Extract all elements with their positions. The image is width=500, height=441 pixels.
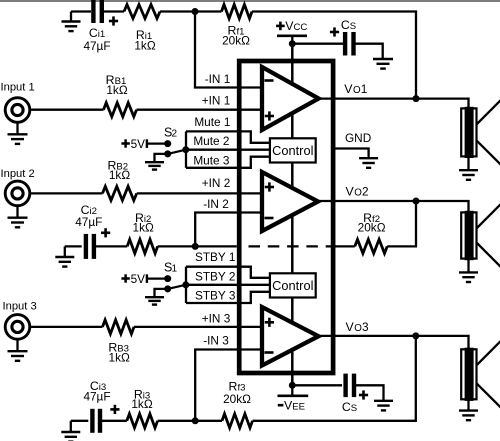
wire ground stub Ci3	[70, 421, 72, 432]
plus polarity Ci2	[101, 228, 110, 237]
wire Rf3 to Vo3 node	[253, 336, 416, 421]
ground SPK2	[459, 272, 478, 282]
wire ground stub Ci2	[64, 246, 66, 257]
ground Cs1	[373, 59, 393, 69]
wire GND pin	[333, 149, 369, 159]
speaker SPK2	[461, 202, 500, 269]
svg-text:47µF: 47µF	[83, 39, 110, 53]
plus polarity Cs1	[330, 27, 339, 36]
switch S2 throw contact gnd	[164, 150, 171, 157]
wire node A to Rf1	[195, 10, 222, 12]
wire stby tie bar	[185, 267, 187, 303]
speaker SPK1	[461, 98, 500, 167]
wire RB3 to +IN3	[134, 326, 262, 328]
wire STBY3 to control	[186, 292, 270, 303]
wire node B to -IN2	[195, 213, 262, 247]
-VEE supply symbol	[278, 385, 309, 412]
wire Ri3 to node C	[158, 420, 196, 422]
svg-text:5V: 5V	[131, 137, 146, 151]
ground Ci3 return	[61, 432, 80, 441]
node mute common	[182, 146, 189, 153]
svg-text:1kΩ: 1kΩ	[109, 351, 130, 365]
wire J3 to RB3	[30, 326, 103, 328]
resistor Ri3	[127, 414, 158, 428]
wire ground stub Ci1	[70, 12, 72, 22]
svg-text:Mute 1: Mute 1	[194, 115, 230, 129]
ground S1	[145, 297, 164, 304]
resistor Rf2	[355, 239, 387, 253]
+VCC supply symbol	[276, 19, 307, 44]
svg-text:5V: 5V	[131, 272, 146, 286]
svg-text:Input 1: Input 1	[1, 82, 35, 94]
wire mute tie bar	[185, 131, 187, 167]
svg-text:47µF: 47µF	[75, 215, 102, 229]
svg-text:-IN 3: -IN 3	[203, 333, 229, 347]
resistor Ri2	[127, 239, 157, 253]
svg-text:1kΩ: 1kΩ	[131, 397, 152, 411]
wire Cs1 to ground	[354, 44, 383, 59]
svg-text:Input 2: Input 2	[1, 168, 35, 180]
svg-text:20kΩ: 20kΩ	[358, 221, 386, 235]
+5V source for S1	[121, 272, 167, 286]
svg-text:V: V	[346, 185, 355, 199]
wire SPK2 ground stub	[467, 259, 469, 273]
node VCC junction	[289, 40, 296, 47]
resistor RB2	[103, 186, 137, 200]
input jack J2	[5, 181, 30, 206]
svg-text:20kΩ: 20kΩ	[223, 392, 251, 406]
wire Vo1	[319, 99, 469, 109]
svg-text:1kΩ: 1kΩ	[133, 221, 154, 235]
node C junction (Ri3/Rf3/-IN3)	[192, 417, 199, 424]
ground J2	[8, 218, 28, 228]
svg-text:1: 1	[361, 82, 368, 96]
wire node C to Rf3	[195, 420, 222, 422]
svg-text:STBY 2: STBY 2	[195, 270, 235, 284]
node stby common	[182, 281, 189, 288]
resistor Rf1	[222, 5, 253, 19]
svg-text:CS: CS	[341, 18, 356, 32]
wire SPK3 ground stub	[467, 399, 469, 410]
resistor Rf3	[222, 414, 253, 428]
wire Rf2 to Vo2 node	[387, 201, 416, 246]
wire VEE to Cs3	[292, 384, 342, 386]
wire Ri2 to node B	[158, 245, 196, 247]
control block 2 (standby logic)	[270, 273, 316, 297]
svg-text:VCC: VCC	[285, 19, 307, 33]
switch S1 throw contact +5V	[164, 275, 171, 282]
svg-text:Ci1: Ci1	[89, 26, 105, 40]
svg-text:-IN 2: -IN 2	[203, 197, 229, 211]
wire Ci1 to Ri1	[102, 10, 124, 12]
op-amp U1C	[262, 307, 319, 366]
wire VCC to Cs1	[292, 43, 343, 45]
ground J1	[8, 134, 28, 144]
svg-text:+IN 1: +IN 1	[202, 93, 231, 107]
capacitor Ci2	[86, 234, 94, 259]
wire Mute1 to control	[186, 131, 270, 142]
svg-text:2: 2	[172, 129, 178, 140]
wire RB2 to +IN2	[137, 192, 262, 194]
control block 1 (mute logic)	[270, 138, 316, 162]
wire Ci3 to Ri3	[100, 420, 127, 422]
node A junction (Ri1/Rf1/-IN1)	[192, 8, 199, 15]
wire Ri1 to node A	[160, 10, 195, 12]
input jack J1	[5, 98, 30, 123]
resistor RB3	[103, 320, 135, 334]
svg-text:47µF: 47µF	[83, 390, 110, 404]
wire J3 ground stub	[16, 339, 18, 351]
svg-text:2: 2	[362, 185, 369, 199]
wire Vo2	[318, 201, 469, 212]
capacitor Cs1 (supply bypass)	[345, 32, 353, 56]
ground GND pin	[359, 158, 378, 168]
node Vo1 junction	[413, 95, 420, 102]
svg-text:Mute 2: Mute 2	[193, 134, 229, 148]
wire node A to -IN1	[195, 12, 262, 88]
ground S2	[145, 162, 164, 169]
wire J2 ground stub	[16, 206, 18, 218]
svg-text:O: O	[353, 85, 361, 96]
speaker SPK3	[461, 339, 500, 410]
wire RB1 to +IN1	[137, 109, 263, 111]
wire ground to Ci2	[65, 245, 82, 247]
svg-text:CS: CS	[342, 400, 357, 414]
wire ground to Ci1	[71, 10, 91, 12]
capacitor Ci3	[92, 409, 100, 433]
wire node B to IC edge	[195, 245, 237, 247]
svg-text:Mute 3: Mute 3	[193, 154, 230, 168]
svg-text:O: O	[354, 323, 362, 334]
svg-text:Control: Control	[272, 143, 313, 158]
wire Mute2 to control	[186, 149, 270, 151]
node Vo3 junction	[412, 332, 419, 339]
capacitor Ci1	[93, 0, 101, 23]
wire STBY1 to control	[186, 267, 270, 278]
ground J3	[8, 351, 28, 361]
node B junction (Ri2/Rf2/-IN2)	[192, 243, 199, 250]
wire SPK1 ground stub	[467, 156, 469, 170]
wire Cs3 to ground	[354, 385, 384, 400]
node VEE junction	[289, 382, 296, 389]
resistor Ri1	[124, 5, 160, 19]
svg-text:-IN 1: -IN 1	[205, 72, 231, 86]
svg-text:STBY 1: STBY 1	[195, 250, 235, 264]
wire dashed feedback crossing IC	[249, 245, 337, 247]
svg-text:Control: Control	[272, 278, 313, 293]
svg-text:GND: GND	[345, 131, 371, 145]
ground SPK3	[459, 411, 478, 421]
wire J2 to RB2	[30, 192, 103, 194]
wire Vo3	[319, 336, 469, 349]
op-amp IC U1 outline	[239, 61, 333, 373]
svg-text:O: O	[354, 188, 362, 199]
plus polarity Cs3	[359, 390, 368, 399]
node Vo2 junction	[413, 198, 420, 205]
wire node C to -IN3	[195, 350, 262, 421]
top border line	[0, 0, 500, 2]
wire J1 to RB1	[30, 109, 104, 111]
wire Rf1 to Vo1 node	[252, 12, 416, 99]
svg-text:1: 1	[172, 264, 178, 275]
svg-text:Input 3: Input 3	[3, 300, 37, 312]
capacitor Cs3 (supply bypass)	[346, 374, 354, 398]
wire S2 gnd contact to ground	[155, 154, 168, 162]
wire Mute3 to control	[186, 157, 270, 168]
input jack J3	[5, 315, 30, 340]
wire STBY2 to control	[186, 284, 270, 286]
svg-text:STBY 3: STBY 3	[195, 288, 236, 302]
+5V source for S2	[121, 137, 167, 151]
svg-text:20kΩ: 20kΩ	[222, 34, 250, 48]
svg-text:+IN 3: +IN 3	[202, 312, 231, 326]
wire J1 ground stub	[16, 122, 18, 134]
op-amp U1A	[262, 67, 319, 130]
svg-text:+IN 2: +IN 2	[202, 176, 231, 190]
svg-text:V: V	[344, 82, 353, 96]
ground Ci1 return	[62, 22, 81, 32]
switch S2 arm	[168, 150, 186, 154]
svg-text:1kΩ: 1kΩ	[106, 83, 127, 97]
resistor RB1	[104, 103, 137, 117]
svg-text:V: V	[346, 320, 355, 334]
ground Ci2 return	[55, 257, 74, 267]
wire VCC spine (IC internal bias rail)	[291, 44, 294, 386]
wire ground to Ci3	[71, 420, 89, 422]
svg-text:VEE: VEE	[284, 399, 305, 413]
switch S1 arm	[168, 285, 186, 289]
ground Cs3	[374, 401, 393, 411]
svg-text:1kΩ: 1kΩ	[134, 39, 155, 53]
ground SPK1	[459, 170, 478, 180]
wire Ci2 to Ri2	[94, 245, 127, 247]
switch S1 throw contact gnd	[164, 285, 171, 292]
switch S2 throw contact +5V	[164, 140, 171, 147]
svg-text:1kΩ: 1kΩ	[109, 168, 130, 182]
svg-text:3: 3	[362, 320, 369, 334]
wire IC edge to Rf2	[335, 245, 355, 247]
wire S1 gnd contact to ground	[155, 289, 168, 297]
plus polarity Ci3	[110, 405, 119, 414]
op-amp U1B	[262, 172, 318, 231]
plus polarity Ci1	[109, 16, 118, 25]
